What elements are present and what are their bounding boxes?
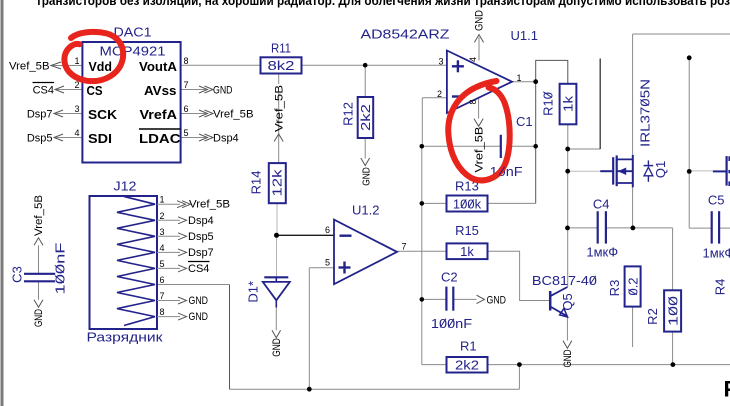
svg-text:Vref_5B: Vref_5B	[33, 195, 45, 236]
svg-text:4: 4	[74, 128, 79, 138]
svg-text:транзисторов без изоляции, на: транзисторов без изоляции, на хороший ра…	[36, 0, 730, 8]
svg-text:CS4: CS4	[188, 263, 209, 275]
svg-text:Dsp4: Dsp4	[188, 215, 214, 227]
svg-text:GND: GND	[189, 311, 209, 323]
svg-text:Dsp4: Dsp4	[213, 132, 239, 144]
svg-text:R11: R11	[271, 41, 291, 56]
svg-text:2: 2	[160, 211, 165, 221]
svg-text:7: 7	[184, 80, 189, 90]
svg-text:1: 1	[517, 73, 522, 83]
svg-text:R1: R1	[460, 339, 477, 354]
svg-text:1мкФ: 1мкФ	[703, 246, 730, 261]
svg-text:R14: R14	[249, 171, 264, 195]
svg-text:2k2: 2k2	[455, 358, 479, 373]
svg-text:R2: R2	[645, 308, 660, 325]
svg-text:3: 3	[160, 227, 165, 237]
svg-text:Vdd: Vdd	[89, 59, 113, 74]
svg-text:GND: GND	[189, 295, 209, 307]
svg-text:Vref_5B: Vref_5B	[274, 85, 286, 132]
svg-text:2k2: 2k2	[358, 104, 373, 131]
svg-text:GND: GND	[474, 10, 486, 31]
svg-text:4: 4	[468, 57, 478, 62]
svg-text:J12: J12	[114, 179, 137, 194]
svg-text:CS4: CS4	[33, 84, 54, 96]
svg-text:C2: C2	[441, 270, 458, 285]
svg-text:3: 3	[74, 104, 79, 114]
svg-text:Vref_5B: Vref_5B	[189, 199, 230, 211]
svg-text:6: 6	[184, 104, 189, 114]
svg-text:1k: 1k	[460, 244, 474, 259]
svg-text:GND: GND	[33, 309, 45, 327]
svg-text:MCP4921: MCP4921	[100, 44, 166, 59]
svg-text:5: 5	[325, 258, 330, 268]
svg-text:Q5: Q5	[560, 293, 575, 310]
svg-text:R15: R15	[455, 223, 479, 238]
svg-text:GND: GND	[271, 338, 283, 357]
svg-text:3: 3	[438, 57, 443, 67]
svg-text:VrefA: VrefA	[140, 107, 178, 122]
svg-text:6: 6	[325, 225, 330, 235]
svg-text:2: 2	[437, 89, 442, 99]
svg-text:Vref_5B: Vref_5B	[473, 127, 485, 173]
svg-text:8: 8	[184, 56, 189, 66]
svg-text:Dsp5: Dsp5	[188, 231, 214, 243]
svg-text:C1: C1	[516, 114, 533, 129]
svg-text:100nF: 100nF	[431, 316, 472, 331]
svg-text:U1.2: U1.2	[352, 203, 379, 218]
svg-text:1k: 1k	[561, 95, 576, 112]
svg-text:Разрядник: Разрядник	[87, 330, 163, 345]
svg-text:1: 1	[160, 195, 165, 205]
svg-text:8: 8	[468, 99, 478, 104]
svg-text:Р: Р	[724, 377, 730, 402]
svg-text:R4: R4	[713, 279, 728, 296]
svg-text:VoutA: VoutA	[139, 59, 178, 74]
svg-text:C4: C4	[593, 197, 610, 212]
svg-text:SCK: SCK	[88, 107, 118, 122]
svg-text:AD8542ARZ: AD8542ARZ	[361, 27, 450, 42]
svg-text:BC817-40: BC817-40	[532, 273, 597, 288]
svg-text:LDAC: LDAC	[139, 131, 181, 146]
svg-text:GND: GND	[487, 294, 507, 306]
svg-text:CS: CS	[87, 83, 103, 98]
svg-text:AVss: AVss	[144, 83, 177, 98]
svg-text:GND: GND	[562, 349, 574, 367]
svg-text:Dsp7: Dsp7	[188, 247, 214, 259]
svg-text:D1*: D1*	[246, 281, 261, 303]
svg-text:U1.1: U1.1	[511, 28, 538, 43]
svg-text:8: 8	[160, 307, 165, 317]
svg-text:8k2: 8k2	[268, 58, 295, 73]
svg-text:Dsp5: Dsp5	[27, 132, 53, 144]
svg-text:4: 4	[160, 243, 165, 253]
svg-text:12k: 12k	[270, 169, 285, 197]
svg-text:5: 5	[184, 128, 189, 138]
svg-text:5: 5	[160, 259, 165, 269]
svg-text:7: 7	[160, 291, 165, 301]
svg-text:100nF: 100nF	[53, 242, 68, 294]
svg-text:GND: GND	[361, 167, 373, 186]
svg-text:R3: R3	[607, 280, 622, 297]
svg-text:IRL3705N: IRL3705N	[638, 79, 653, 147]
svg-text:1: 1	[74, 56, 79, 66]
svg-text:1мкФ: 1мкФ	[586, 245, 618, 260]
svg-text:Vref_5B: Vref_5B	[213, 108, 254, 120]
svg-text:GND: GND	[213, 84, 233, 96]
svg-text:C5: C5	[708, 193, 725, 208]
svg-text:R10: R10	[541, 92, 556, 116]
svg-text:SDI: SDI	[88, 131, 112, 146]
svg-text:C3: C3	[10, 266, 25, 283]
svg-text:R12: R12	[341, 102, 356, 126]
svg-text:100k: 100k	[453, 197, 482, 212]
svg-text:Vref_5B: Vref_5B	[9, 60, 50, 72]
svg-text:Dsp7: Dsp7	[27, 108, 53, 120]
svg-text:Q1: Q1	[653, 161, 668, 178]
svg-text:6: 6	[160, 275, 165, 285]
svg-text:7: 7	[402, 242, 407, 252]
